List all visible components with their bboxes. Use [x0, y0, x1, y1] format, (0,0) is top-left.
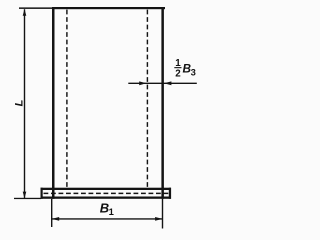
B1 right arrowhead (points right) — [155, 217, 163, 221]
top extension line — [19, 7, 52, 8]
half B3 left arrowhead (points right at dashed line) — [139, 81, 146, 85]
B1 dimension line — [52, 218, 163, 220]
base bar dashed centerline — [44, 192, 169, 194]
left wall — [52, 7, 55, 199]
right dashed center line — [146, 10, 148, 189]
B1 left arrowhead (points left) — [52, 217, 60, 221]
B1 right extension line — [162, 199, 164, 229]
dimension L line — [24, 9, 26, 198]
bottom-left extension line — [14, 198, 41, 199]
label 1/2 B3 fraction bar — [174, 67, 181, 68]
half B3 right arrowhead (points left at wall) — [164, 81, 172, 85]
svg-text:3: 3 — [191, 66, 196, 77]
svg-text:L: L — [13, 99, 25, 106]
svg-text:2: 2 — [175, 68, 181, 79]
base bar bottom edge — [41, 197, 172, 199]
base bar right cap — [169, 188, 171, 199]
dimension L top arrowhead — [23, 9, 27, 16]
left dashed center line — [66, 10, 68, 189]
right wall — [161, 7, 164, 199]
base bar top edge — [41, 188, 172, 190]
svg-text:1: 1 — [109, 206, 114, 217]
B1 left extension line — [51, 199, 53, 227]
top edge line — [52, 7, 165, 9]
base bar left cap — [41, 188, 43, 199]
dimension L bottom arrowhead — [23, 192, 27, 199]
half B3 dimension line — [128, 82, 197, 84]
